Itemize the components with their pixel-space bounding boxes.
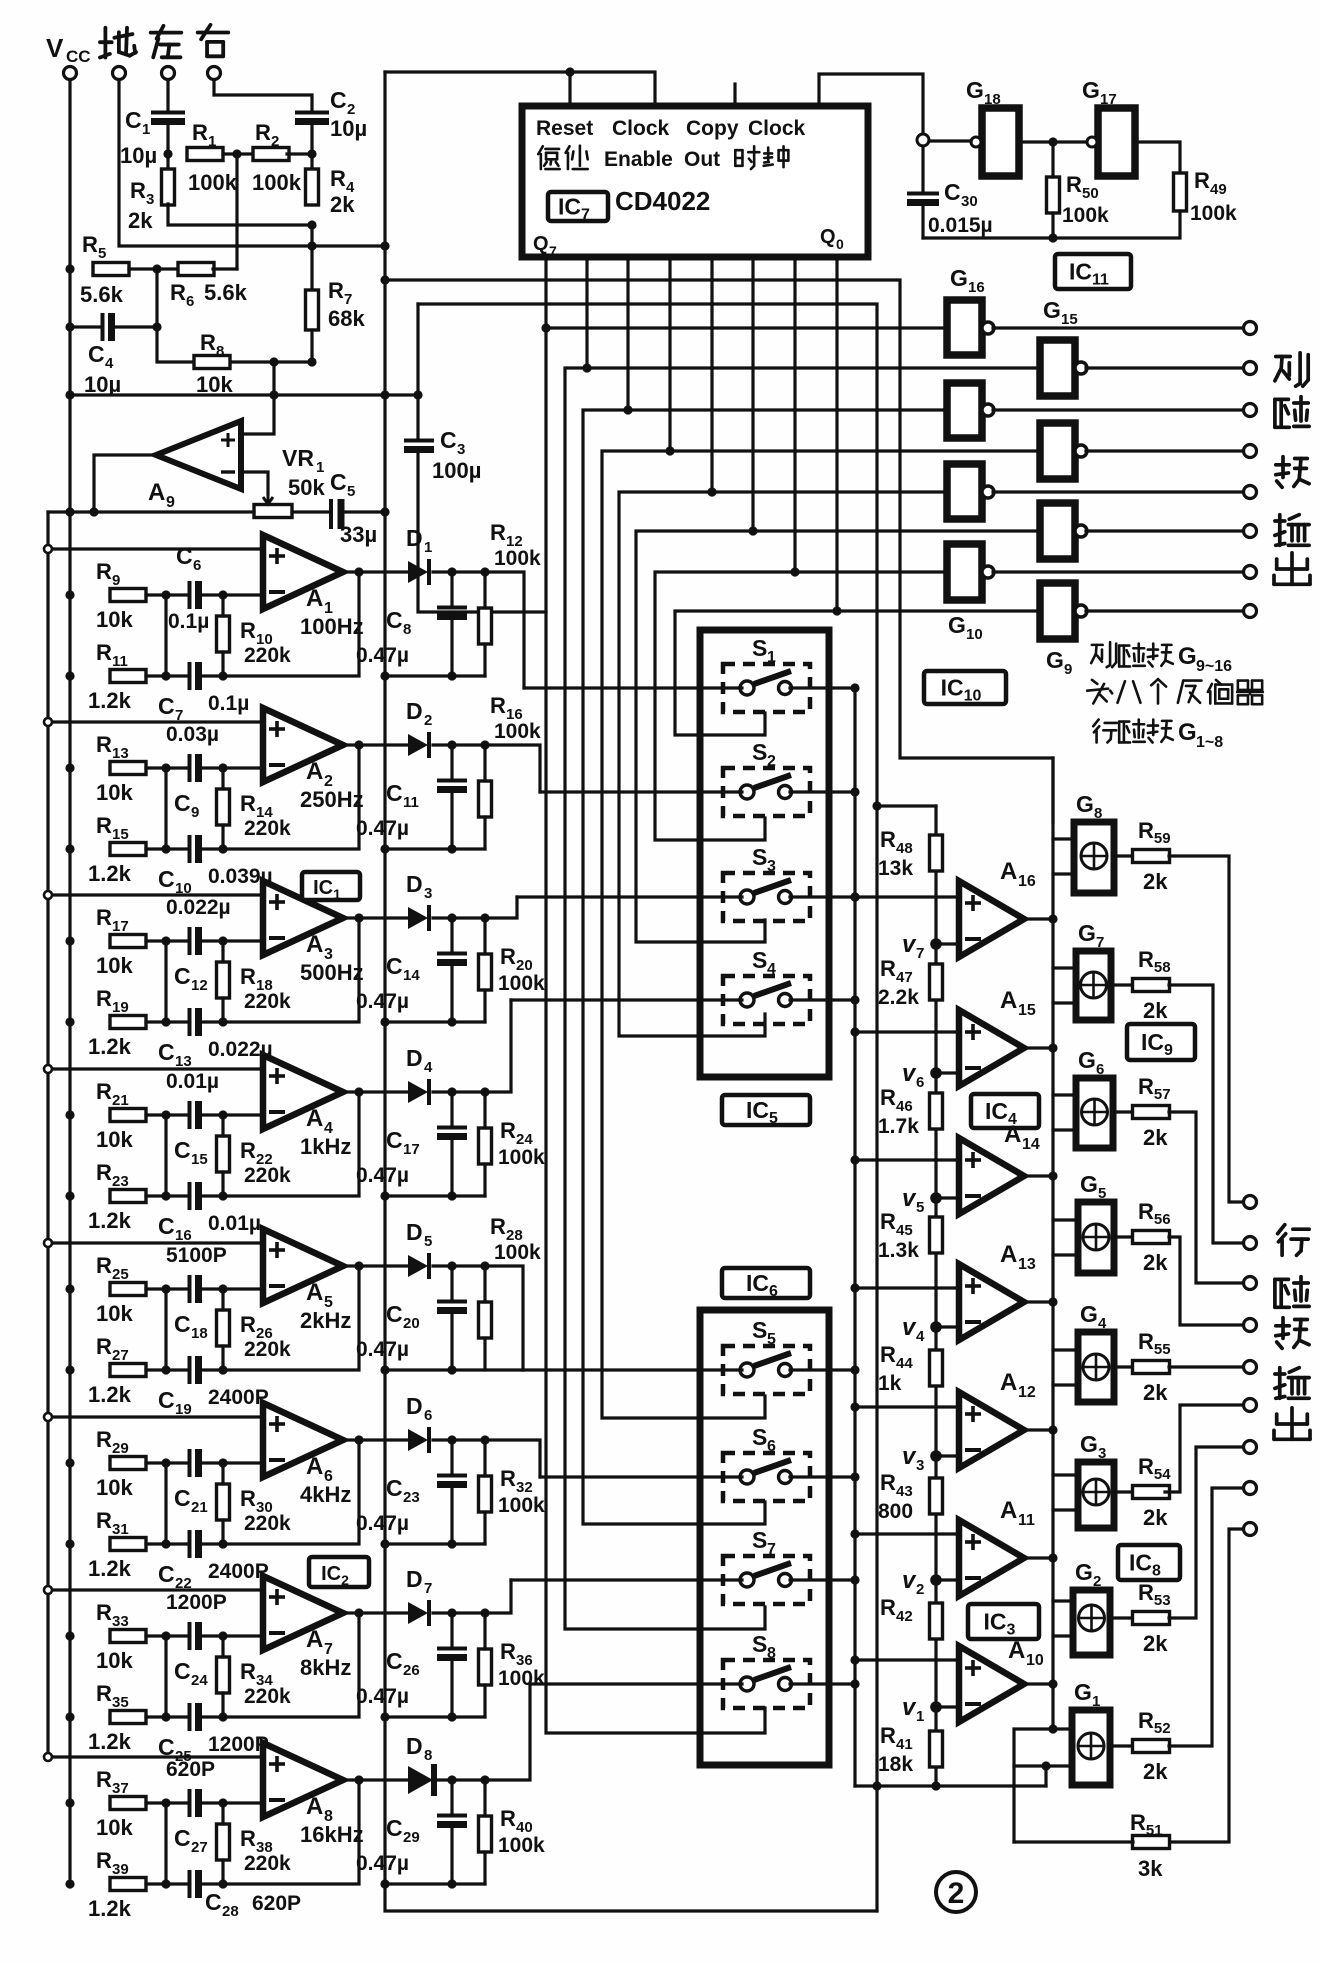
svg-text:C: C [174, 1311, 191, 1337]
svg-text:6: 6 [1096, 1061, 1104, 1078]
svg-text:CC: CC [66, 47, 91, 66]
junction node1b cell 1 [161, 671, 170, 680]
wire C23 stem top [450, 1440, 453, 1475]
junction R8 output node [269, 357, 278, 366]
wire v4 to -input [936, 1325, 959, 1328]
wire R28 stem top [483, 1266, 486, 1302]
svg-text:8: 8 [424, 1747, 432, 1764]
junction node2b cell 7 [218, 1712, 227, 1721]
wire CD4022 output Q column 8 [835, 257, 838, 611]
wire G4 input stub lower [1053, 1383, 1078, 1386]
terminal row-drive y1488 [1244, 1482, 1257, 1495]
svg-text:44: 44 [896, 1355, 913, 1372]
resistor R31 1.2k [88, 1508, 146, 1581]
wire row to gate G14 [628, 408, 947, 411]
svg-text:A: A [306, 1279, 323, 1306]
junction y280 at bus x385 [380, 275, 389, 284]
junction Vcc bus at C4 [65, 322, 74, 331]
junction detector node b cell 7 [480, 1608, 489, 1617]
wire feedback row cell 3 [200, 918, 359, 1022]
svg-text:3: 3 [916, 1457, 924, 1474]
wire A15 +input [855, 1030, 959, 1033]
terminal column-drive 4 [1244, 445, 1257, 458]
wire Vcc bus to C4 [70, 325, 100, 328]
wire node1 link column [164, 1636, 167, 1717]
node v3 [902, 1443, 942, 1474]
svg-text:R: R [82, 232, 98, 257]
capacitor C27 620P [166, 1758, 215, 1856]
junction node1 cell 2 [161, 763, 170, 772]
wire R33 to C24 [146, 1634, 186, 1637]
svg-text:2: 2 [916, 1581, 924, 1598]
junction Vcc bus at R29 [65, 1458, 74, 1467]
terminal column-drive 5 [1244, 486, 1257, 499]
capacitor C22 2400P [158, 1530, 269, 1592]
gate G1 (XOR driver) [1072, 1679, 1110, 1785]
resistor R47 2.2k [878, 956, 943, 1009]
label column-drive output char 4 [1275, 515, 1309, 546]
wire S3 row left contact [517, 895, 742, 898]
wire S7 output to bus [790, 1578, 855, 1581]
svg-text:50: 50 [1082, 185, 1099, 202]
svg-text:10k: 10k [96, 1301, 133, 1326]
svg-text:C: C [88, 341, 105, 367]
wire A12 +input [855, 1405, 959, 1408]
junction detector node a cell 5 [447, 1261, 456, 1270]
svg-text:S: S [752, 1424, 767, 1450]
junction node2 cell 8 [218, 1798, 227, 1807]
wire G3 input stub upper [1053, 1473, 1078, 1476]
wire GND terminal to y246 rail [119, 80, 385, 246]
svg-text:2k: 2k [128, 208, 153, 233]
wire A2 +input row [48, 720, 263, 723]
svg-text:G: G [1082, 77, 1100, 103]
resistor R45 1.3k [878, 1209, 943, 1262]
svg-text:17: 17 [112, 918, 129, 935]
svg-text:R: R [880, 827, 896, 852]
resistor R14 220k [217, 789, 292, 840]
junction rail at cap cell 5 [447, 1365, 456, 1374]
junction bus at A13 + [850, 1283, 859, 1292]
wire R10 column low [221, 652, 224, 676]
wire R25 to C18 [146, 1287, 186, 1290]
svg-text:100k: 100k [498, 1667, 545, 1690]
wire R1R2 node down to R6 [235, 154, 238, 269]
svg-text:C: C [386, 1475, 403, 1501]
wire C6 to -input [200, 593, 263, 596]
junction node1 cell 4 [161, 1110, 170, 1119]
diode D6 [406, 1393, 432, 1453]
terminal Left(左) [162, 67, 175, 80]
wire G2 input stub upper [1053, 1599, 1073, 1602]
wire A13 +input [855, 1286, 959, 1289]
wire A15 output [1024, 1046, 1053, 1049]
resistor R7 68k [306, 278, 366, 331]
resistor R46 1.7k [878, 1085, 943, 1138]
junction R5-R6-C4 node [152, 264, 161, 273]
wire A2 output [341, 743, 408, 746]
svg-text:800: 800 [878, 1500, 913, 1523]
annotation 行驱动 char@1160 [1148, 720, 1173, 743]
IC CD4022 (IC7) counter box [522, 106, 868, 259]
terminal row-drive y1367 [1244, 1361, 1257, 1374]
wire feedback row cell 4 [200, 1092, 359, 1196]
wire R53 route to output terminal [1169, 1447, 1243, 1618]
junction R1-R2 node [232, 149, 241, 158]
svg-text:500Hz: 500Hz [300, 960, 364, 985]
junction Q2 staircase [582, 363, 591, 372]
junction Q7 staircase [790, 567, 799, 576]
junction rail at bus cell 5 [380, 1365, 389, 1374]
wire node1 link column [164, 595, 167, 676]
resistor R52 2k [1133, 1708, 1171, 1784]
wire bottom reference rail [855, 1784, 1046, 1787]
junction rail at bus cell 4 [380, 1191, 389, 1200]
svg-text:C: C [158, 1039, 175, 1065]
svg-text:R: R [500, 1806, 516, 1831]
svg-text:26: 26 [403, 1662, 420, 1679]
junction Q1 staircase [541, 323, 550, 332]
junction node1 cell 1 [161, 590, 170, 599]
wire A8 +input row [48, 1755, 263, 1758]
junction A14 out [1048, 1171, 1057, 1180]
terminal column-drive 3 [1244, 404, 1257, 417]
wire detector ground rail cell 4 [385, 1194, 485, 1197]
IC label IC9 [1127, 1024, 1195, 1060]
svg-text:S: S [752, 947, 767, 973]
junction ref row at x94 [89, 507, 98, 516]
svg-text:220k: 220k [244, 644, 291, 667]
capacitor C12 0.022µ [166, 896, 231, 994]
svg-text:R: R [200, 330, 216, 355]
wire G3 input stub lower [1053, 1508, 1078, 1511]
wire G1 lower input [1014, 1764, 1072, 1767]
svg-text:R: R [96, 813, 112, 838]
wire S4 row left contact [511, 998, 742, 1001]
svg-text:1: 1 [316, 459, 324, 476]
wire A9 -input to VR1 wiper [241, 472, 268, 494]
wire R40 stem top [483, 1780, 486, 1816]
wire select column S5 [619, 492, 765, 1036]
svg-text:C: C [125, 107, 142, 133]
op-amp A4 1kHz [263, 1055, 351, 1159]
wire G15 output to terminal [1086, 366, 1243, 369]
svg-text:v: v [902, 1314, 917, 1341]
wire select column S2 [675, 611, 837, 735]
wire A7 output [341, 1611, 408, 1614]
wire R52 route to output terminal [1169, 1488, 1243, 1746]
svg-text:11: 11 [1018, 1512, 1035, 1529]
wire R36 stem top [483, 1613, 486, 1649]
junction node2b cell 2 [218, 844, 227, 853]
svg-text:620P: 620P [252, 1892, 301, 1915]
label G9 [1046, 647, 1072, 678]
junction detector node b cell 4 [480, 1087, 489, 1096]
switch S7 [723, 1527, 810, 1604]
wire G1 input jog [1014, 1729, 1053, 1842]
svg-text:620P: 620P [166, 1758, 215, 1781]
svg-text:C: C [174, 1825, 191, 1851]
svg-text:1: 1 [142, 121, 150, 138]
svg-text:R: R [880, 1595, 896, 1620]
svg-text:R: R [96, 559, 112, 584]
svg-text:48: 48 [896, 840, 913, 857]
svg-text:1.2k: 1.2k [88, 688, 132, 713]
junction Q3 staircase [623, 405, 632, 414]
node v6 [902, 1060, 942, 1091]
switch S8 [723, 1631, 810, 1708]
wire R49 bottom rail [923, 211, 1180, 238]
svg-text:5: 5 [916, 1199, 924, 1216]
wire C24 to -input [200, 1634, 263, 1637]
svg-text:8: 8 [1094, 805, 1102, 822]
svg-text:R: R [500, 1466, 516, 1491]
svg-text:D: D [406, 1393, 423, 1419]
wire R8 node down to A9 +input [243, 362, 274, 434]
svg-text:R: R [96, 986, 112, 1011]
wire select column S6 [602, 451, 765, 1418]
svg-text:46: 46 [896, 1098, 913, 1115]
svg-text:D: D [406, 1733, 423, 1759]
svg-text:G: G [1074, 1679, 1092, 1705]
wire G6 output to R57 [1113, 1110, 1134, 1113]
wire R23 to C16 [146, 1194, 186, 1197]
svg-text:R: R [880, 1470, 896, 1495]
wire S6 row left contact [540, 1475, 742, 1478]
capacitor C14 0.47µ [356, 953, 467, 1013]
capacitor C8 0.47µ [356, 607, 467, 667]
wire C3 column [416, 395, 419, 440]
wire A11 output [1024, 1556, 1053, 1559]
op-amp A2 250Hz [263, 708, 364, 812]
IC label IC6 [722, 1268, 810, 1300]
label row-drive output char 4 [1275, 1368, 1309, 1399]
resistor R27 1.2k [88, 1334, 146, 1407]
junction detector node a cell 7 [447, 1608, 456, 1617]
node +row terminus cell 3 [44, 891, 52, 899]
svg-text:Q: Q [820, 226, 836, 248]
svg-text:5: 5 [424, 1233, 432, 1250]
junction node2b cell 6 [218, 1539, 227, 1548]
svg-text:1.2k: 1.2k [88, 1208, 132, 1233]
wire G4 output to R55 [1114, 1365, 1134, 1368]
svg-text:S: S [752, 1527, 767, 1553]
svg-text:2k: 2k [330, 192, 355, 217]
wire R26 column [221, 1289, 224, 1310]
wire A14 +input [855, 1158, 959, 1161]
wire R58 route to output terminal [1169, 985, 1243, 1243]
wire select column S7 [583, 410, 765, 1524]
wire CD4022 output Q column 7 [793, 257, 796, 572]
capacitor C24 1200P [166, 1591, 227, 1689]
junction detector node b cell 2 [480, 740, 489, 749]
svg-text:3k: 3k [1138, 1856, 1163, 1881]
capacitor C17 0.47µ [356, 1127, 467, 1187]
svg-text:220k: 220k [244, 1164, 291, 1187]
wire C8 stem bottom [450, 617, 453, 676]
wire row to gate G10 [795, 570, 947, 573]
wire R38 column [221, 1803, 224, 1824]
capacitor C28 620P [190, 1870, 302, 1920]
capacitor C2 10µ [295, 87, 367, 141]
junction feedback at output cell 8 [354, 1775, 363, 1784]
svg-text:3: 3 [457, 441, 465, 458]
terminal Vcc [46, 33, 91, 80]
junction R4 bottom rail at x312 [307, 220, 316, 229]
potentiometer VR1 50k [254, 445, 325, 518]
svg-text:16: 16 [1018, 873, 1036, 890]
junction Vcc bus at R21 [65, 1110, 74, 1119]
junction A12 out [1048, 1425, 1057, 1434]
junction detector node a cell 1 [447, 567, 456, 576]
svg-text:1: 1 [767, 649, 776, 666]
wire feedback row cell 5 [200, 1266, 359, 1370]
wire row to gate G12 [712, 490, 947, 493]
svg-text:33: 33 [112, 1613, 129, 1630]
svg-text:10k: 10k [96, 607, 133, 632]
wire node1 link column [164, 941, 167, 1022]
junction S5 at mux bus [850, 1365, 859, 1374]
wire G11 output to terminal [1086, 529, 1243, 532]
label column-drive output char 5 [1274, 553, 1310, 585]
resistor R15 1.2k [88, 813, 146, 886]
wire detector node cell 5 [433, 1264, 485, 1267]
node v7 [902, 931, 942, 962]
svg-text:18: 18 [191, 1325, 208, 1342]
wire feedback row cell 2 [200, 745, 359, 849]
svg-text:2k: 2k [1143, 1759, 1168, 1784]
switch S6 [723, 1424, 810, 1501]
svg-text:G: G [966, 77, 984, 103]
wire C26 stem bottom [450, 1658, 453, 1717]
wire R48 feed [877, 804, 936, 807]
svg-text:1.2k: 1.2k [88, 1729, 132, 1754]
wire G18 out to G17 in [1019, 140, 1086, 143]
junction detector node a cell 8 [447, 1775, 456, 1784]
wire R32 stem top [483, 1440, 486, 1476]
resistor R3 2k [128, 169, 175, 233]
svg-text:8kHz: 8kHz [300, 1655, 351, 1680]
wire C15 to -input [200, 1113, 263, 1116]
svg-text:C: C [386, 1648, 403, 1674]
wire R34 column low [221, 1693, 224, 1717]
wire C12 to -input [200, 939, 263, 942]
wire detector to S1 row [485, 572, 524, 688]
switch S5 [723, 1317, 810, 1394]
junction S6 at mux bus [850, 1472, 859, 1481]
annotation 为八个反向器 char@1220 [1208, 680, 1232, 704]
svg-text:1.2k: 1.2k [88, 1896, 132, 1921]
wire select column S4 [636, 531, 765, 942]
junction bus at A16 + [850, 892, 859, 901]
junction rail at cap cell 6 [447, 1539, 456, 1548]
svg-text:39: 39 [112, 1861, 129, 1878]
capacitor C16 0.01µ [158, 1182, 261, 1244]
junction rail at cap cell 4 [447, 1191, 456, 1200]
capacitor C29 0.47µ [356, 1815, 467, 1875]
junction y395 at bus x385 [380, 390, 389, 399]
wire G8 input stub lower [1053, 872, 1074, 875]
wire reset pin [568, 72, 571, 106]
svg-text:41: 41 [896, 1736, 913, 1753]
node +row terminus cell 4 [44, 1065, 52, 1073]
wire R50 top [1051, 142, 1054, 177]
svg-text:10: 10 [1026, 1652, 1044, 1669]
resistor R40 100k [479, 1806, 546, 1857]
label 复位 [538, 146, 559, 169]
svg-text:v: v [902, 1567, 917, 1594]
svg-text:R: R [96, 1427, 112, 1452]
label row-drive output char 5 [1274, 1408, 1310, 1440]
junction Vcc bus at R37 [65, 1798, 74, 1807]
terminal row-drive y1243 [1244, 1237, 1257, 1250]
wire C5 to bus x385 [342, 510, 385, 513]
wire ref bus x48 down [46, 512, 49, 1757]
wire S2 output to bus [790, 790, 855, 793]
op-amp A5 2kHz [263, 1229, 351, 1333]
terminal label 左 [151, 26, 182, 57]
svg-text:R: R [96, 732, 112, 757]
wire C2 to R4 [310, 122, 313, 171]
svg-text:9: 9 [191, 804, 199, 821]
svg-text:0.01µ: 0.01µ [208, 1212, 261, 1235]
svg-text:1.2k: 1.2k [88, 1034, 132, 1059]
junction node1b cell 6 [161, 1539, 170, 1548]
wire R19 to C13 [146, 1020, 186, 1023]
wire G6 input stub lower [1053, 1128, 1076, 1131]
svg-text:2400P: 2400P [208, 1560, 269, 1583]
svg-text:1200P: 1200P [208, 1733, 269, 1756]
svg-text:G: G [1076, 791, 1094, 817]
switch S1 [723, 635, 810, 712]
svg-text:100k: 100k [498, 1494, 545, 1517]
terminal row-drive y1283 [1244, 1277, 1257, 1290]
resistor R8 10k [194, 330, 233, 397]
wire R12 stem bottom [483, 644, 486, 676]
junction node1 cell 6 [161, 1458, 170, 1467]
resistor R24 100k [479, 1118, 546, 1169]
node +row terminus cell 8 [44, 1753, 52, 1761]
wire VR1 to C5 [292, 510, 330, 513]
wire A3 +input row [48, 893, 263, 896]
op-amp A13 [959, 1241, 1036, 1340]
svg-text:V: V [46, 33, 64, 63]
resistor R4 2k [306, 166, 356, 217]
wire R6 to R1R2 node column [213, 267, 237, 270]
diode D8 [406, 1733, 434, 1796]
svg-text:7: 7 [424, 1580, 432, 1597]
svg-text:10µ: 10µ [120, 143, 157, 168]
resistor R57 2k [1133, 1074, 1171, 1150]
resistor R33 10k [96, 1600, 146, 1673]
wire node1 link column [164, 1463, 167, 1544]
IC box IC5 (S1-S4) [700, 630, 829, 1077]
junction bus at A14 + [850, 1155, 859, 1164]
svg-text:R: R [96, 1600, 112, 1625]
svg-text:10k: 10k [96, 1127, 133, 1152]
resistor R19 1.2k [88, 986, 146, 1059]
svg-text:100k: 100k [1062, 204, 1109, 227]
wire C23 stem bottom [450, 1485, 453, 1544]
wire rail to G1 [1044, 1766, 1047, 1786]
wire v6 to -input [936, 1071, 959, 1074]
wire R13 to C9 [146, 766, 186, 769]
resistor R13 10k [96, 732, 146, 805]
junction Vcc bus at R31 [65, 1539, 74, 1548]
svg-text:v: v [902, 1694, 917, 1721]
wire top rail to CD4022 clock pin [385, 72, 655, 106]
svg-text:1kHz: 1kHz [300, 1134, 351, 1159]
